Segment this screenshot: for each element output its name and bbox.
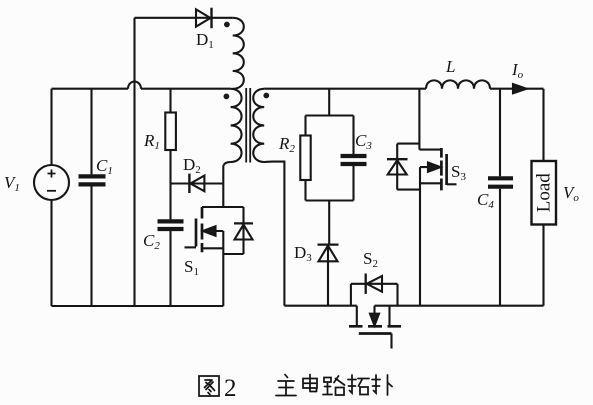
svg-text:C4: C4 xyxy=(477,190,494,211)
caption char 路 xyxy=(323,376,345,395)
svg-text:S3: S3 xyxy=(451,162,466,183)
wire secondary top rail xyxy=(264,88,426,90)
svg-text:V1: V1 xyxy=(4,173,20,194)
svg-text:2: 2 xyxy=(224,375,237,402)
snubber network R2 C3 xyxy=(300,89,366,245)
diode D1 xyxy=(196,8,212,29)
caption char 图 xyxy=(199,376,219,396)
svg-text:S1: S1 xyxy=(184,257,199,278)
wire top rail left segment xyxy=(135,17,197,19)
wire output bottom rail xyxy=(375,305,544,307)
wire top rail right segment xyxy=(212,17,233,19)
transistor S2 (MOSFET, rotated) xyxy=(349,306,401,349)
capacitor C4 xyxy=(488,89,513,306)
load resistor box xyxy=(532,89,557,306)
node dot primary winding polarity xyxy=(224,94,230,100)
wire bottom mid rail xyxy=(284,305,356,307)
transformer core xyxy=(246,88,250,163)
svg-text:D1: D1 xyxy=(196,30,214,51)
capacitor C1 xyxy=(79,89,106,306)
wire output top rail xyxy=(490,88,544,90)
svg-text:C1: C1 xyxy=(96,156,113,177)
voltage source V1 xyxy=(34,89,69,306)
caption char 主 xyxy=(276,375,296,396)
wire mid rail with hop over vertical xyxy=(52,82,231,89)
body diode of S3 xyxy=(387,144,420,190)
inductor L xyxy=(426,80,490,88)
body diode of S1 xyxy=(223,207,253,254)
wire bottom rail left xyxy=(52,305,224,307)
body diode of S2 xyxy=(351,274,398,306)
transformer primary winding xyxy=(223,89,241,207)
svg-text:R1: R1 xyxy=(143,131,160,152)
capacitor C2 xyxy=(158,184,184,307)
svg-text:Load: Load xyxy=(534,173,555,213)
svg-text:S2: S2 xyxy=(363,249,378,270)
svg-text:C2: C2 xyxy=(143,231,160,252)
transformer tertiary reset winding xyxy=(233,18,244,89)
arrow Io xyxy=(513,84,527,93)
svg-text:R2: R2 xyxy=(278,134,295,155)
svg-text:Vo: Vo xyxy=(563,183,579,204)
node dot secondary winding polarity xyxy=(263,93,269,99)
svg-text:Io: Io xyxy=(511,60,524,81)
svg-text:L: L xyxy=(445,57,455,76)
diode D3 xyxy=(318,245,339,306)
caption char 拓 xyxy=(348,375,369,395)
diode D2 xyxy=(171,174,224,193)
caption char 电 xyxy=(303,375,317,392)
node dot tertiary winding polarity xyxy=(224,22,230,28)
transistor S3 (MOSFET) xyxy=(419,89,456,306)
transformer secondary winding xyxy=(253,89,284,306)
resistor R1 xyxy=(165,89,176,184)
caption char 扑 xyxy=(372,375,392,395)
transistor S1 (MOSFET) xyxy=(185,207,244,306)
svg-text:D2: D2 xyxy=(183,155,201,176)
svg-text:C3: C3 xyxy=(355,131,372,152)
wire left vertical (D1 anode to negative rail) xyxy=(133,18,135,306)
svg-text:D3: D3 xyxy=(294,243,312,264)
